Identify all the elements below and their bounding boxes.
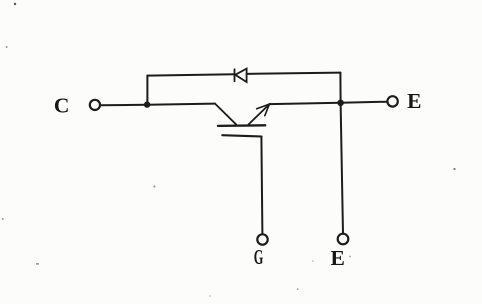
transistor Q1 IGBT [215, 104, 269, 137]
node emitter junction [337, 100, 344, 107]
wire collector node to IGBT collector [147, 104, 215, 105]
wire emitter node to terminal E2 [341, 103, 343, 234]
diode D1 [235, 69, 247, 82]
svg-text:E: E [407, 89, 421, 113]
node collector junction [144, 101, 150, 107]
wire C terminal to collector node [100, 104, 147, 107]
terminal G [257, 234, 267, 244]
svg-text:E: E [331, 246, 345, 270]
svg-text:G: G [254, 245, 264, 269]
terminal C [90, 100, 100, 110]
wire emitter node to terminal E [341, 102, 388, 103]
wire top rail right (diode anode to emitter node) [247, 73, 341, 74]
svg-text:C: C [54, 94, 70, 118]
wire IGBT emitter to emitter node [269, 103, 340, 104]
wire top rail left (to diode cathode) [147, 74, 234, 75]
wire top rail corner down to emitter node [339, 73, 341, 103]
terminal E2 [338, 234, 349, 245]
terminal E [387, 96, 397, 106]
wire gate lead [261, 137, 262, 235]
wire collector node up to top rail [146, 76, 148, 105]
